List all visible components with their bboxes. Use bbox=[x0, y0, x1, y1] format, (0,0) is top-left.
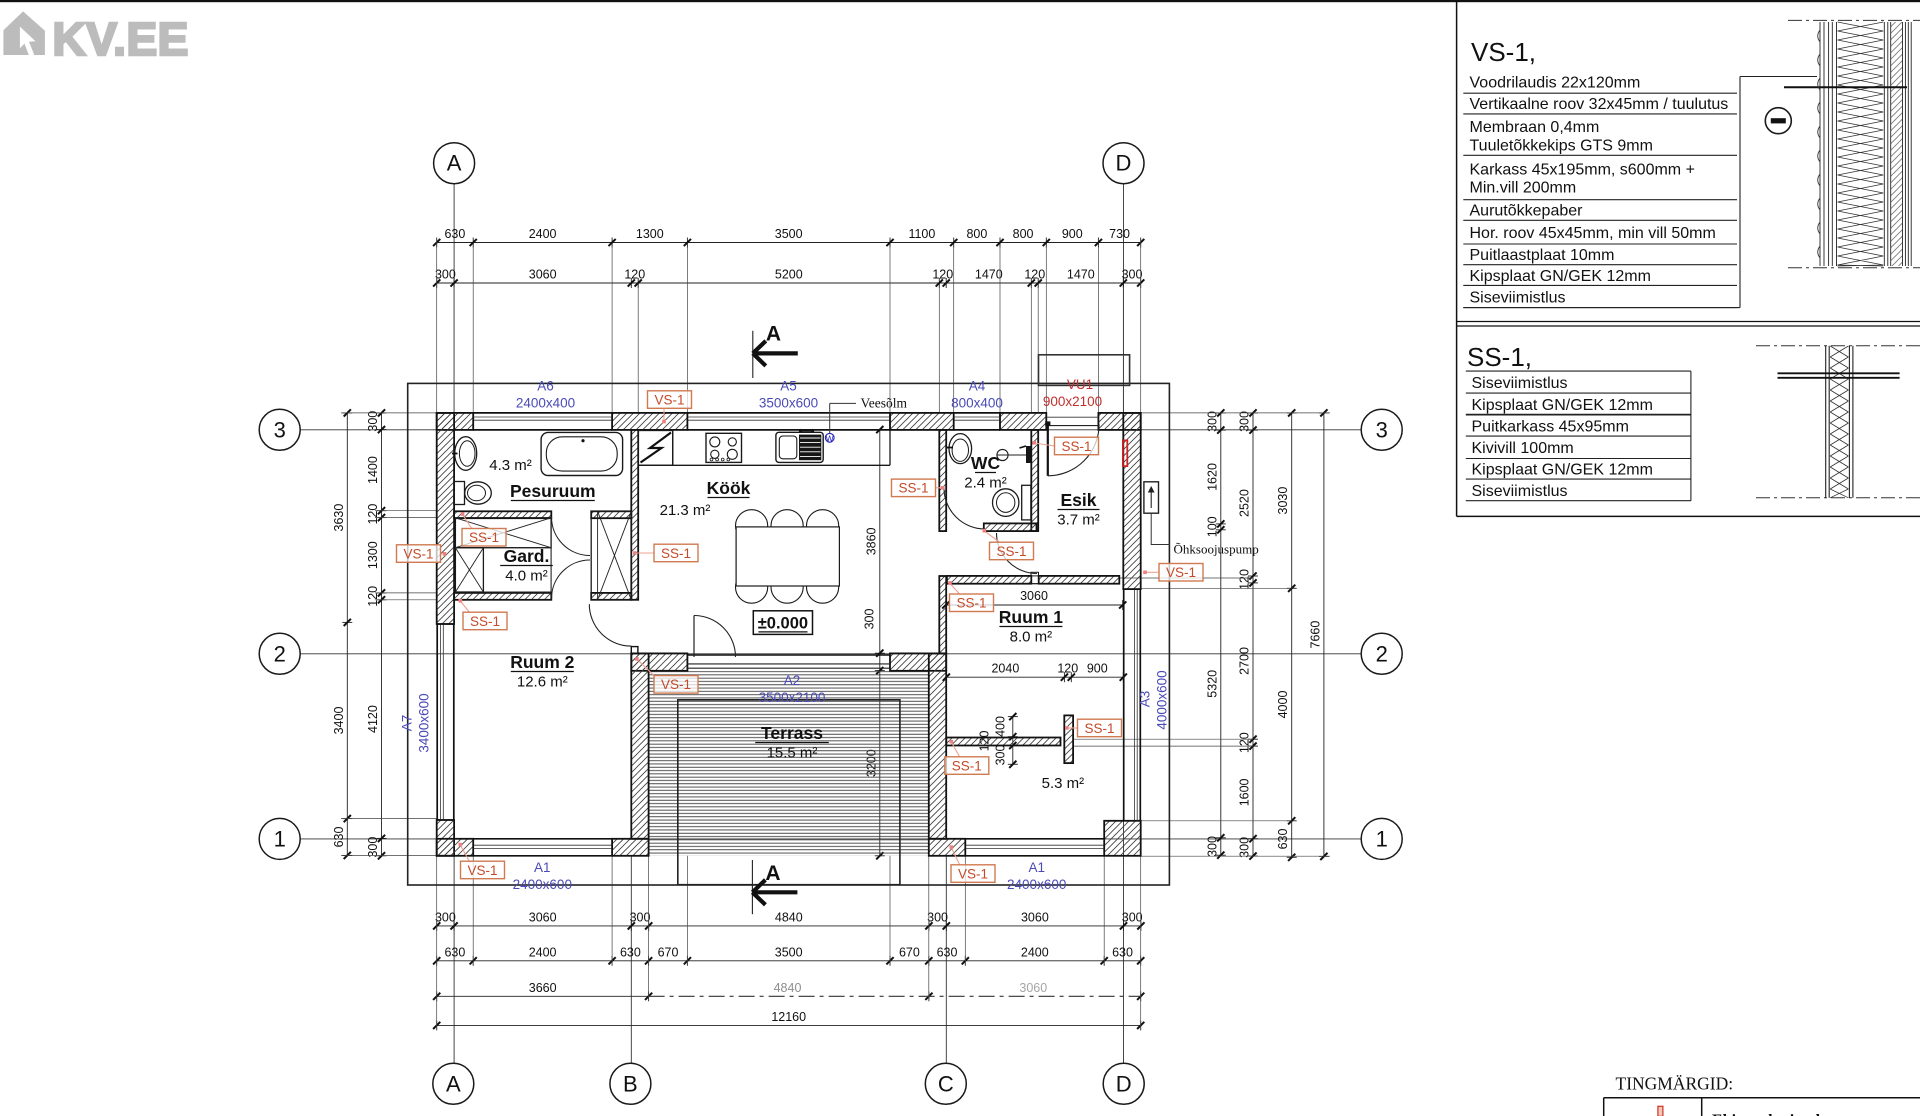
svg-text:300: 300 bbox=[1122, 268, 1143, 282]
svg-text:1: 1 bbox=[1376, 826, 1388, 851]
svg-text:1400: 1400 bbox=[366, 456, 380, 484]
svg-text:730: 730 bbox=[1109, 227, 1130, 241]
svg-text:120: 120 bbox=[1238, 569, 1252, 590]
svg-text:1300: 1300 bbox=[636, 227, 664, 241]
svg-text:300: 300 bbox=[1122, 910, 1143, 924]
svg-text:2400x400: 2400x400 bbox=[516, 396, 575, 411]
svg-text:Kipsplaat GN/GEK 12mm: Kipsplaat GN/GEK 12mm bbox=[1472, 462, 1653, 479]
svg-text:3060: 3060 bbox=[1019, 981, 1047, 995]
svg-text:Gard.: Gard. bbox=[504, 546, 550, 566]
svg-text:15.5 m²: 15.5 m² bbox=[767, 745, 818, 762]
svg-text:1600: 1600 bbox=[1238, 778, 1252, 806]
svg-text:2400x600: 2400x600 bbox=[513, 877, 572, 892]
svg-text:A6: A6 bbox=[537, 379, 554, 394]
svg-text:Kivivill 100mm: Kivivill 100mm bbox=[1472, 440, 1574, 457]
svg-text:KV.EE: KV.EE bbox=[53, 13, 189, 65]
svg-text:SS-1: SS-1 bbox=[956, 596, 986, 611]
svg-text:630: 630 bbox=[937, 945, 958, 959]
svg-text:Kipsplaat GN/GEK 12mm: Kipsplaat GN/GEK 12mm bbox=[1470, 268, 1651, 285]
svg-text:C: C bbox=[938, 1071, 954, 1096]
svg-text:Puitkarkass 45x95mm: Puitkarkass 45x95mm bbox=[1472, 419, 1629, 436]
svg-text:630: 630 bbox=[444, 945, 465, 959]
svg-text:1100: 1100 bbox=[908, 227, 935, 241]
svg-text:B: B bbox=[623, 1071, 638, 1096]
svg-text:2700: 2700 bbox=[1238, 647, 1252, 675]
svg-text:3400x600: 3400x600 bbox=[417, 693, 432, 752]
svg-text:300: 300 bbox=[435, 268, 456, 282]
svg-text:120: 120 bbox=[366, 586, 380, 607]
svg-text:5.3 m²: 5.3 m² bbox=[1042, 775, 1085, 792]
svg-text:Tuuletõkkekips GTS 9mm: Tuuletõkkekips GTS 9mm bbox=[1470, 138, 1653, 155]
svg-text:300: 300 bbox=[366, 837, 380, 858]
svg-text:1: 1 bbox=[274, 826, 286, 851]
svg-text:VS-1: VS-1 bbox=[467, 863, 497, 878]
svg-text:300: 300 bbox=[1238, 411, 1252, 432]
svg-text:2400: 2400 bbox=[529, 227, 557, 241]
svg-text:Siseviimistlus: Siseviimistlus bbox=[1472, 375, 1568, 392]
svg-text:670: 670 bbox=[658, 945, 679, 959]
svg-text:SS-1: SS-1 bbox=[898, 481, 928, 496]
svg-text:2520: 2520 bbox=[1238, 489, 1252, 517]
svg-text:Ruum 2: Ruum 2 bbox=[510, 652, 574, 672]
svg-text:120: 120 bbox=[1024, 268, 1045, 282]
svg-text:Köök: Köök bbox=[707, 478, 751, 498]
svg-text:3500x600: 3500x600 bbox=[759, 396, 818, 411]
svg-text:A: A bbox=[765, 862, 780, 885]
svg-text:300: 300 bbox=[366, 411, 380, 432]
svg-text:3030: 3030 bbox=[1276, 487, 1290, 515]
svg-text:Membraan 0,4mm: Membraan 0,4mm bbox=[1470, 119, 1600, 136]
svg-text:VS-1: VS-1 bbox=[661, 677, 691, 692]
svg-text:3060: 3060 bbox=[529, 910, 557, 924]
svg-text:4120: 4120 bbox=[366, 705, 380, 733]
svg-text:3500: 3500 bbox=[775, 945, 803, 959]
svg-text:2400: 2400 bbox=[529, 945, 557, 959]
svg-text:3060: 3060 bbox=[529, 268, 557, 282]
svg-text:120: 120 bbox=[1238, 732, 1252, 753]
svg-text:A1: A1 bbox=[1028, 860, 1045, 875]
svg-text:100: 100 bbox=[1205, 516, 1219, 537]
svg-text:21.3 m²: 21.3 m² bbox=[660, 502, 711, 519]
svg-text:300: 300 bbox=[435, 910, 456, 924]
svg-text:2040: 2040 bbox=[991, 662, 1019, 676]
svg-text:5320: 5320 bbox=[1205, 670, 1219, 698]
svg-text:TINGMÄRGID:: TINGMÄRGID: bbox=[1616, 1074, 1734, 1094]
svg-text:5200: 5200 bbox=[775, 268, 803, 282]
svg-text:Kipsplaat GN/GEK 12mm: Kipsplaat GN/GEK 12mm bbox=[1472, 397, 1653, 414]
svg-text:A4: A4 bbox=[969, 379, 986, 394]
svg-text:800x400: 800x400 bbox=[951, 396, 1003, 411]
svg-text:630: 630 bbox=[1112, 945, 1133, 959]
svg-text:2400x600: 2400x600 bbox=[1007, 877, 1066, 892]
svg-text:A: A bbox=[446, 1071, 461, 1096]
svg-text:1300: 1300 bbox=[366, 541, 380, 569]
svg-text:A1: A1 bbox=[534, 860, 551, 875]
svg-text:Pesuruum: Pesuruum bbox=[510, 481, 596, 501]
svg-text:SS-1: SS-1 bbox=[952, 758, 982, 773]
svg-text:Aurutõkkepaber: Aurutõkkepaber bbox=[1470, 203, 1584, 220]
svg-text:A7: A7 bbox=[400, 715, 415, 732]
svg-text:VU1: VU1 bbox=[1067, 377, 1093, 392]
svg-text:±0.000: ±0.000 bbox=[758, 614, 808, 632]
svg-text:3500: 3500 bbox=[775, 227, 803, 241]
svg-text:SS-1: SS-1 bbox=[1084, 721, 1114, 736]
svg-text:120: 120 bbox=[366, 504, 380, 525]
svg-text:3660: 3660 bbox=[529, 981, 557, 995]
svg-text:800: 800 bbox=[966, 227, 987, 241]
svg-text:630: 630 bbox=[1276, 829, 1290, 850]
svg-text:630: 630 bbox=[444, 227, 465, 241]
svg-text:SS-1: SS-1 bbox=[469, 530, 499, 545]
svg-text:A: A bbox=[447, 151, 462, 176]
svg-text:630: 630 bbox=[332, 827, 346, 848]
svg-text:Ehitatud seinad: Ehitatud seinad bbox=[1712, 1112, 1820, 1116]
svg-text:3060: 3060 bbox=[1021, 910, 1049, 924]
svg-text:3500x2100: 3500x2100 bbox=[759, 690, 826, 705]
svg-text:300: 300 bbox=[630, 910, 651, 924]
svg-text:4.0 m²: 4.0 m² bbox=[505, 568, 548, 585]
svg-text:1470: 1470 bbox=[1067, 268, 1095, 282]
svg-text:2.4 m²: 2.4 m² bbox=[964, 475, 1007, 492]
svg-text:12160: 12160 bbox=[771, 1010, 806, 1024]
svg-text:4840: 4840 bbox=[774, 981, 802, 995]
svg-text:SS-1: SS-1 bbox=[1061, 439, 1091, 454]
svg-text:3.7 m²: 3.7 m² bbox=[1057, 512, 1100, 529]
svg-text:2: 2 bbox=[274, 641, 286, 666]
svg-text:400: 400 bbox=[994, 716, 1008, 737]
svg-text:300: 300 bbox=[863, 609, 877, 630]
svg-text:VS-1: VS-1 bbox=[403, 546, 433, 561]
svg-text:900: 900 bbox=[1087, 662, 1108, 676]
svg-text:W: W bbox=[826, 433, 834, 443]
svg-text:VS-1: VS-1 bbox=[654, 392, 684, 407]
svg-text:3630: 3630 bbox=[332, 504, 346, 532]
svg-text:Vertikaalne roov 32x45mm / tuu: Vertikaalne roov 32x45mm / tuulutus bbox=[1470, 96, 1729, 113]
svg-text:A5: A5 bbox=[780, 379, 797, 394]
svg-text:A2: A2 bbox=[784, 673, 801, 688]
svg-text:2400: 2400 bbox=[1021, 945, 1049, 959]
svg-text:4840: 4840 bbox=[775, 910, 803, 924]
svg-text:900: 900 bbox=[1062, 227, 1083, 241]
svg-text:D: D bbox=[1116, 1071, 1132, 1096]
svg-text:SS-1: SS-1 bbox=[661, 546, 691, 561]
svg-text:12.6 m²: 12.6 m² bbox=[517, 674, 568, 691]
svg-text:Voodrilaudis 22x120mm: Voodrilaudis 22x120mm bbox=[1470, 75, 1641, 92]
svg-text:SS-1: SS-1 bbox=[470, 614, 500, 629]
svg-text:Terrass: Terrass bbox=[761, 723, 823, 743]
svg-text:3860: 3860 bbox=[864, 527, 878, 555]
svg-text:7660: 7660 bbox=[1308, 621, 1322, 649]
svg-text:Veesõlm: Veesõlm bbox=[861, 396, 908, 411]
svg-text:Õhksoojuspump: Õhksoojuspump bbox=[1174, 542, 1259, 557]
svg-text:4000x600: 4000x600 bbox=[1155, 670, 1170, 729]
svg-text:3: 3 bbox=[274, 417, 286, 442]
svg-text:120: 120 bbox=[932, 268, 953, 282]
svg-text:8.0 m²: 8.0 m² bbox=[1010, 629, 1053, 646]
svg-text:Ruum 1: Ruum 1 bbox=[999, 607, 1063, 627]
svg-text:300: 300 bbox=[1205, 411, 1219, 432]
svg-text:120: 120 bbox=[624, 268, 645, 282]
svg-text:VS-1: VS-1 bbox=[1166, 565, 1196, 580]
svg-text:1620: 1620 bbox=[1205, 463, 1219, 491]
svg-text:800: 800 bbox=[1013, 227, 1034, 241]
svg-text:VS-1: VS-1 bbox=[958, 866, 988, 881]
svg-text:Puitlaastplaat 10mm: Puitlaastplaat 10mm bbox=[1470, 247, 1615, 264]
svg-text:Karkass 45x195mm, s600mm +: Karkass 45x195mm, s600mm + bbox=[1470, 162, 1695, 179]
svg-text:Min.vill 200mm: Min.vill 200mm bbox=[1470, 180, 1577, 197]
svg-text:4000: 4000 bbox=[1276, 691, 1290, 719]
svg-text:Esik: Esik bbox=[1061, 490, 1097, 510]
svg-text:300: 300 bbox=[994, 745, 1008, 766]
svg-text:SS-1: SS-1 bbox=[996, 544, 1026, 559]
svg-text:Hor. roov 45x45mm, min vill 50: Hor. roov 45x45mm, min vill 50mm bbox=[1470, 225, 1716, 242]
KV.EE watermark logo bbox=[3, 11, 188, 65]
svg-text:1470: 1470 bbox=[975, 268, 1003, 282]
svg-text:WC: WC bbox=[971, 453, 1001, 473]
svg-text:120: 120 bbox=[1057, 662, 1078, 676]
svg-text:D: D bbox=[1116, 151, 1132, 176]
svg-text:A: A bbox=[766, 323, 781, 346]
svg-text:3: 3 bbox=[1376, 417, 1388, 442]
svg-text:3060: 3060 bbox=[1020, 589, 1048, 603]
svg-text:2: 2 bbox=[1376, 641, 1388, 666]
svg-text:300: 300 bbox=[927, 910, 948, 924]
svg-text:900x2100: 900x2100 bbox=[1043, 394, 1102, 409]
svg-text:SS-1,: SS-1, bbox=[1467, 342, 1532, 372]
svg-text:300: 300 bbox=[1238, 837, 1252, 858]
svg-text:3400: 3400 bbox=[332, 707, 346, 735]
svg-text:Siseviimistlus: Siseviimistlus bbox=[1470, 290, 1566, 307]
svg-text:300: 300 bbox=[1205, 836, 1219, 857]
svg-text:630: 630 bbox=[620, 945, 641, 959]
svg-text:A3: A3 bbox=[1138, 691, 1153, 708]
svg-text:4.3 m²: 4.3 m² bbox=[489, 457, 532, 474]
top border bar bbox=[0, 0, 1920, 2]
svg-text:Siseviimistlus: Siseviimistlus bbox=[1472, 483, 1568, 500]
svg-text:670: 670 bbox=[899, 945, 920, 959]
svg-text:VS-1,: VS-1, bbox=[1471, 37, 1536, 67]
